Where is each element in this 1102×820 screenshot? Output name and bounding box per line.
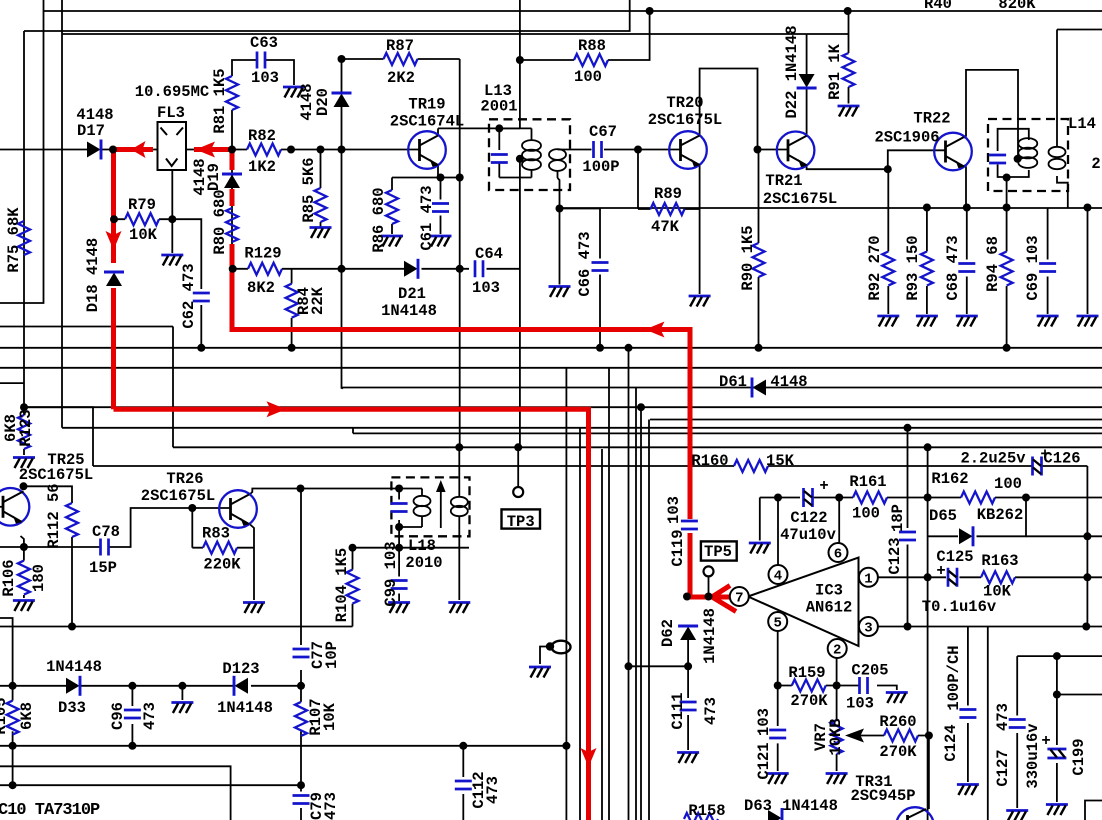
resistor R89 [651,203,685,215]
pin 1 [859,568,878,588]
svg-text:103: 103 [251,69,279,87]
node 330u row [1053,691,1061,699]
diode D19 [222,174,242,188]
resistor R112 [66,503,78,537]
svg-text:R129: R129 [244,245,281,263]
ground C127 [1006,811,1028,820]
node L18 bottom [395,523,403,531]
wire C112 branch x=463.3 [462,746,464,820]
wire R159 row y=685.5 [778,686,897,691]
svg-text:6K8: 6K8 [18,702,36,730]
wire L14 secondary top column x=1057 [1057,30,1102,147]
node R105 audio out [9,781,17,789]
svg-text:R85 5K6: R85 5K6 [300,157,318,222]
svg-text:100: 100 [852,505,880,523]
svg-text:R75 68K: R75 68K [5,207,23,273]
wire red vertical through D18 [111,150,116,409]
wire main IF row y=149.5 left [0,149,87,151]
wire D17 to FL3 and FL3 to R82 row [101,149,247,151]
svg-text:C119: C119 [669,529,687,566]
transistor TR31 [896,807,934,820]
diode D22 [797,74,817,88]
node FL3 right [228,146,236,154]
svg-text:C199: C199 [1070,738,1088,775]
wire R87 rail y=59 [342,58,460,60]
wire R79 row y=219.2 [114,218,172,220]
node R105 bottom [9,742,17,750]
wire R112 bottom [71,537,73,627]
node C123 top [904,424,912,432]
svg-text:R92 270: R92 270 [866,235,884,300]
wire R123 column node [23,407,25,455]
svg-text:C69 103: C69 103 [1024,235,1042,300]
transistor TR20 [669,131,707,169]
wire R93 branch x=926.9 [926,208,928,315]
node L18 tuning arrow [436,480,446,528]
node pin1 row x927 [924,573,932,581]
wire L14 secondary ground column x=1087.5 [1087,208,1089,315]
node R88 left [516,56,524,64]
node R161 right [924,494,932,502]
wire L14 bottom tap down [1006,176,1008,179]
wire C127 branch x=1017.2 [1016,656,1018,808]
node D33 left [9,682,17,690]
ground C61 [430,236,452,247]
wire L13 secondary bottom vertical x=559.5 [558,178,560,209]
wire R161/D65 column x=927.6 [928,447,958,820]
svg-text:C122: C122 [790,509,827,527]
wire R83 right to emitter column [237,547,254,549]
svg-text:R79: R79 [128,196,156,214]
test point TP5 terminal [704,566,714,576]
wire C122 rail y=497.5 [760,497,928,499]
svg-text:D62: D62 [659,619,677,647]
wire vertical x=987.8 [987,627,989,820]
svg-text:+: + [819,477,828,495]
inductor L18 secondary [451,497,468,516]
svg-text:TR21: TR21 [765,172,802,190]
svg-text:TR19: TR19 [408,96,445,114]
svg-text:473: 473 [702,697,720,725]
node D62 bottom [684,662,692,670]
node R159 left [774,682,782,690]
svg-text:C124: C124 [942,724,960,761]
wire TR25 collector node [24,486,73,503]
svg-text:473: 473 [484,776,502,804]
svg-text:3: 3 [864,621,872,637]
svg-text:R112 56: R112 56 [45,483,63,548]
node L14 sec gnd [1084,204,1092,212]
svg-text:R163: R163 [981,552,1018,570]
wire bus y=427.8 [62,427,1102,429]
wire y=31 from x=24 to x=630 rising to top [24,0,630,31]
svg-text:KB262: KB262 [977,506,1024,524]
node R90 bottom [755,344,763,352]
ground R106 [13,601,35,612]
wire C69 branch x=1047.6 [1047,208,1049,315]
capacitor L14 internal [989,155,1006,163]
wire L13 cap bottom rail [499,163,531,178]
svg-text:R94 68: R94 68 [984,236,1002,292]
wire bus vertical x=650 [648,420,650,820]
node D21 left [338,265,346,273]
diode D17 [87,140,101,160]
pin 3 [859,617,878,637]
IF transformer L13 box [489,119,570,190]
svg-text:L14: L14 [1068,115,1096,133]
resistor R94 [1001,252,1013,286]
wire C62 bottom [200,305,202,348]
svg-text:473: 473 [141,702,159,730]
wire bus y=387.5 from x=341.5 [342,388,1102,389]
wire TR26 emitter column x=254 [249,524,254,601]
svg-text:10.695MC: 10.695MC [135,83,209,101]
svg-text:1N4148: 1N4148 [217,699,273,717]
svg-text:270K: 270K [790,692,828,710]
svg-text:1N4148: 1N4148 [381,302,437,320]
wire x=559.5 ground lead [559,209,561,285]
svg-text:TR22: TR22 [913,110,950,128]
node C66 bottom [596,344,604,352]
svg-text:D18 4148: D18 4148 [84,238,102,312]
svg-text:R160: R160 [691,452,728,470]
svg-text:+: + [936,562,945,580]
diode D18 [104,272,124,286]
node gnd stub [178,682,186,690]
wire L13 cap top lead [498,128,500,150]
wire D22 to R91 rail y=34 [807,33,849,35]
wire node y=407 to x=93 [24,407,93,466]
wire VR7 branch [836,686,838,772]
capacitor C64 [475,260,483,277]
svg-text:47K: 47K [651,218,680,236]
wire TP3 lead [517,447,519,487]
wire R89 right to TR20 emitter column [685,208,700,210]
wire TR22 collector loop to L14 tap [964,70,1018,159]
diode D20 [332,93,352,107]
wire top-left vertical x=43.5 [0,0,44,303]
wire D62 node row y=666.3 [629,665,689,667]
wire bus vertical x=566.4 [565,368,567,820]
svg-text:AN612: AN612 [806,599,853,617]
node R107 bottom [297,781,305,789]
wire TR26 collector rail y=488.5 [249,489,399,496]
svg-text:2SC1675L: 2SC1675L [141,487,215,505]
ground R93 [916,316,938,327]
node TR25 emitter [20,543,28,551]
svg-text:+: + [1040,446,1049,464]
wire D22 top [806,34,808,74]
svg-text:330u16v: 330u16v [1024,723,1042,789]
wire y=34 from x=62 to D22 column [62,33,807,35]
resistor R91 [843,53,855,87]
wire L14 secondary bottom [1057,176,1068,208]
svg-text:1N4148: 1N4148 [46,658,102,676]
node audio row end [562,742,570,750]
ground C121 [767,774,789,785]
wire L13 top rail [499,127,531,129]
inductor L14 secondary [1049,147,1066,169]
svg-text:2SC1674L: 2SC1674L [390,113,464,131]
transistor TR19 [408,131,446,169]
node AGC R123 [20,403,28,411]
node bus x623 [625,344,633,352]
pin 2 [828,639,847,659]
svg-text:15K: 15K [766,452,795,470]
wire TR22 base rail [888,150,946,169]
wire R79 node to C62 [172,219,201,289]
node red arrow into FL3 right side [131,141,146,158]
capacitor C79 [293,796,310,804]
node L14 cap bottom [1003,174,1011,182]
resistor R90 [753,243,765,277]
node C99 top [395,544,403,552]
svg-text:R104 1K5: R104 1K5 [333,548,351,622]
svg-text:R88: R88 [578,37,606,55]
svg-text:103: 103 [846,695,874,713]
svg-text:10P: 10P [323,641,341,669]
svg-text:T0.1u16v: T0.1u16v [922,598,997,616]
node red arrow left on y=330 [645,322,665,338]
svg-text:2SC945P: 2SC945P [850,787,915,805]
node C77 bottom [297,682,305,690]
svg-text:100: 100 [574,68,602,86]
node TR26 collector rail [297,485,305,493]
wire C99 branch [398,548,400,601]
ground L14 secondary [1077,316,1099,327]
svg-text:D17: D17 [77,122,105,140]
node L18 top [395,485,403,493]
wire R85 branch x=320.5 [320,150,322,227]
node VR7 wiper arrow [845,729,864,743]
node D62 row left [625,662,633,670]
node R162 right [1022,494,1030,502]
svg-text:2SC1675L: 2SC1675L [763,190,837,208]
node R85 top [317,146,325,154]
svg-text:D20: D20 [314,88,332,116]
svg-text:2SC1675L: 2SC1675L [19,466,93,484]
wire L13 secondary top to C67 [558,149,592,151]
svg-text:5: 5 [773,616,781,632]
wire R83 branch x=192.3 [192,508,203,548]
resistor R159 [792,680,826,692]
node TR21 base [754,146,762,154]
resistor R84 [286,284,298,318]
svg-text:8K2: 8K2 [247,279,275,297]
node C96 bottom [128,742,136,750]
resistor R92 [882,252,894,286]
ground R85 [310,228,332,239]
inductor L13 secondary [549,149,566,171]
diode D62 [678,626,698,640]
wire emitter-gnd row y=207.5 [560,207,1102,210]
resistor R82 [247,144,281,156]
svg-text:R158: R158 [688,802,725,820]
ground C122 [749,543,771,554]
wire R91 column x=848.5 [848,11,850,104]
svg-text:D22 1N4148: D22 1N4148 [783,25,801,118]
svg-text:2001: 2001 [480,98,517,116]
ground 330u16v [1046,805,1068,816]
svg-text:10K: 10K [129,226,158,244]
svg-text:7: 7 [735,591,743,607]
node D17 out [109,146,117,154]
wire y=626.5 row left [0,626,353,628]
svg-text:820K: 820K [998,0,1036,13]
svg-text:C111: C111 [669,692,687,729]
node C127 row [1053,652,1061,660]
inductor L13 primary [522,140,541,170]
ground C205 [886,693,908,704]
wire bus vertical x=623 [628,348,630,820]
ground C66 branch [549,287,571,298]
wire bus y=407.2 [24,406,1102,408]
wire TR20 collector column x=699.6 up [700,69,758,150]
IF transformer L18 box [391,477,469,536]
wire C77 column x=301 [300,489,302,686]
node C68 top [963,204,971,212]
svg-text:D65: D65 [929,507,957,525]
transistor TR26 [219,490,257,528]
svg-text:R159: R159 [788,664,825,682]
wire D65 row to right edge [1026,535,1102,537]
svg-text:2010: 2010 [405,554,442,572]
wire L13 secondary loops leads [557,171,559,179]
svg-text:R105: R105 [0,697,10,734]
wire C96 branch x=132.4 [131,686,133,746]
wire R92 column x=888.3 [887,169,890,314]
wire R86 branch x=392 [391,178,393,235]
wire audio row y=745.8 [0,745,566,747]
wire AGC row y=447.3 [173,446,603,448]
wire R162 rail [928,497,1102,499]
node R94 top [1003,204,1011,212]
resistor R107 [295,702,307,736]
ground R91 [838,106,860,117]
wire C127 row y=656.1 [1017,655,1102,657]
node pin7 wire [683,593,691,601]
diode D123 [234,676,248,696]
node bus x638 [637,403,645,411]
capacitor C63 [257,52,265,69]
test point TP5 box [701,541,737,560]
svg-text:2SC1675L: 2SC1675L [648,111,722,129]
svg-text:TP5: TP5 [704,543,732,561]
svg-text:FL3: FL3 [157,104,185,122]
diode D21 [404,259,418,279]
svg-text:D123: D123 [222,660,259,678]
test point TP3 box [502,509,541,528]
resistor R161 [853,492,887,504]
svg-text:TP3: TP3 [507,513,535,531]
resistor R163 [981,571,1015,583]
ground C68 [956,316,978,327]
wire L18 primary leads [399,489,422,548]
svg-text:100P/CH: 100P/CH [945,645,963,710]
wire y=383 stub to left edge [0,382,24,384]
wire R87 right vertical x=459.7 down to AGC line [459,59,461,447]
capacitor C112 [455,781,472,789]
wire TR25 emitter lead [21,536,24,547]
wire L18 secondary column x=459.3 [458,447,460,600]
node L18 sec top [455,443,463,451]
wire AGC row right y=447.3 [603,446,1102,448]
node R84 bottom [288,344,296,352]
resistor R80 [226,208,238,242]
wire FL3 bottom lead to ground x=172.3 [171,170,173,253]
capacitor C119 [681,521,698,529]
node red arrow down on x=589 [581,748,597,767]
wire bus vertical x=631 [635,388,637,820]
svg-text:C127: C127 [994,749,1012,786]
svg-text:C67: C67 [589,123,617,141]
wire C121 branch [777,686,779,772]
svg-text:C96: C96 [109,702,127,730]
capacitor C99 [391,581,408,589]
wire L13 supply vertical x=519.9 [519,0,521,447]
wire R106 branch [23,547,25,598]
svg-text:+: + [1041,732,1050,750]
svg-text:C64: C64 [475,245,503,263]
transistor TR22 [934,133,972,171]
ground VR7 [826,774,848,785]
diode D33 [66,676,80,696]
capacitor L13 internal [491,155,508,163]
node pin3 row x908 [904,623,912,631]
wire red segment FL3 to R82 node [194,147,232,152]
ground TR26 emitter [243,603,265,614]
pin 4 [769,565,788,585]
node L13 sec bottom [556,205,564,213]
capacitor C69 [1039,264,1056,272]
svg-text:2SC1906: 2SC1906 [874,129,939,147]
svg-text:R123: R123 [17,409,35,446]
node pin3 row right [1082,623,1090,631]
wire TR21 base lead [758,149,789,151]
node TR26 base [188,504,196,512]
wire row y=785.2 [0,784,301,786]
svg-text:103: 103 [472,279,500,297]
node D21 right [456,265,464,273]
node R94 bottom [1003,344,1011,352]
wire vertical x=173 [172,327,174,448]
pin 7 [730,587,749,607]
svg-text:103: 103 [755,708,773,736]
wire R89 branch x=638 [638,150,651,210]
svg-text:R83: R83 [202,525,230,543]
svg-text:2.2u25v: 2.2u25v [960,450,1026,468]
wire R82 right to TR19 base [281,149,420,151]
svg-text:D21: D21 [398,285,426,303]
svg-text:2: 2 [1091,155,1100,173]
svg-text:D33: D33 [58,699,86,717]
svg-text:270K: 270K [879,743,917,761]
capacitor C205 [860,677,868,694]
resistor R93 [921,252,933,286]
node pin6 top [835,494,843,502]
svg-text:10K: 10K [321,702,339,731]
capacitor C125 electrolytic [948,568,957,587]
svg-text:TR26: TR26 [166,470,203,488]
wire L13 coil leads [531,128,533,177]
resistor R86 [386,190,398,224]
wire bus vertical x=608 [608,368,610,820]
diode D63 [768,808,782,820]
wire bus y=367.8 [0,367,1102,369]
wire x=12.6 stub up [0,618,13,686]
ground stub D33 row [171,703,193,714]
ground C124 [957,785,979,796]
